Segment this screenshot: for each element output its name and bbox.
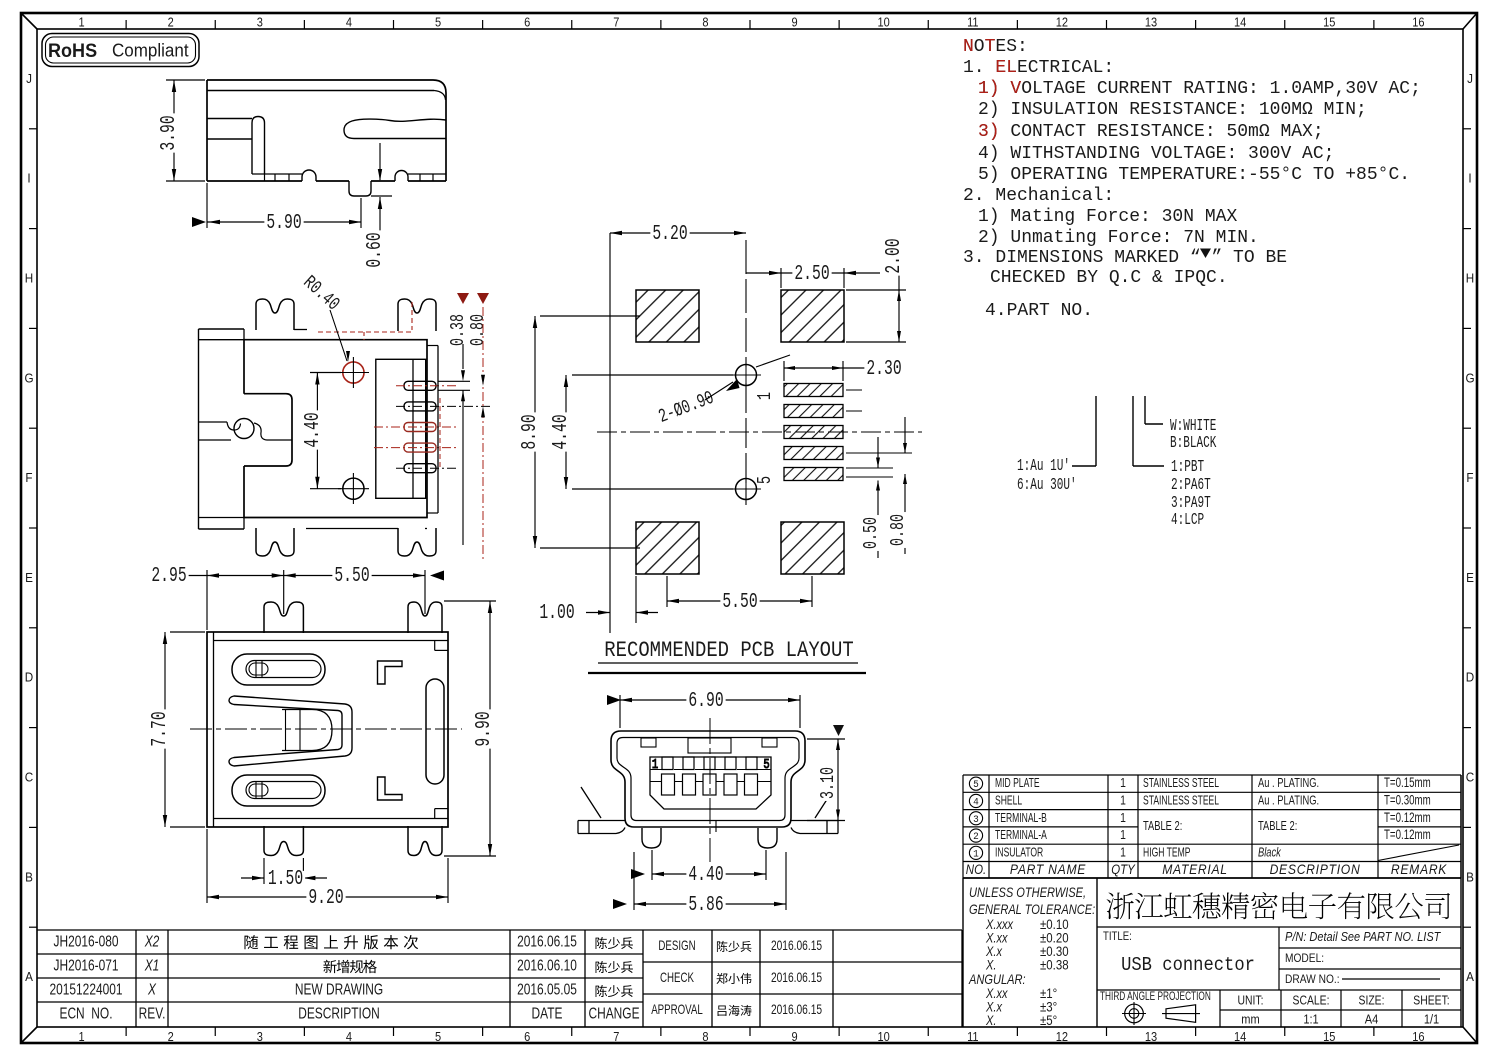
svg-text:2:PA6T: 2:PA6T: [1171, 476, 1211, 495]
top view holes: [338, 357, 369, 504]
svg-text:9: 9: [791, 15, 797, 30]
svg-text:E: E: [25, 570, 33, 585]
svg-text:QTY: QTY: [1111, 862, 1136, 877]
svg-text:2016.06.15: 2016.06.15: [517, 932, 577, 950]
svg-text:15: 15: [1323, 1029, 1336, 1044]
svg-text:9.90: 9.90: [473, 711, 496, 746]
svg-text:C: C: [1466, 770, 1475, 785]
svg-text:3: 3: [973, 813, 979, 825]
svg-text:I: I: [27, 171, 30, 186]
svg-text:1:1: 1:1: [1303, 1012, 1319, 1027]
svg-text:6:Au 30U': 6:Au 30U': [1017, 476, 1077, 495]
svg-text:T=0.12mm: T=0.12mm: [1384, 810, 1431, 825]
svg-text:1: 1: [754, 392, 776, 400]
svg-text:Black: Black: [1258, 846, 1282, 860]
svg-text:12: 12: [1056, 15, 1069, 30]
dimension 4.40 (pcb): [550, 375, 733, 489]
svg-text:APPROVAL: APPROVAL: [651, 1003, 703, 1018]
svg-text:1: 1: [78, 15, 84, 30]
svg-text:5: 5: [973, 779, 979, 791]
dimension 3.10: [807, 725, 845, 821]
svg-text:10: 10: [878, 15, 891, 30]
notes text block: [963, 37, 1421, 321]
svg-text:0.38: 0.38: [447, 314, 469, 346]
svg-text:THIRD ANGLE PROJECTION: THIRD ANGLE PROJECTION: [1100, 991, 1211, 1004]
svg-text:0.80: 0.80: [467, 314, 489, 346]
svg-text:2016.05.05: 2016.05.05: [517, 980, 577, 998]
connector centerline: [709, 718, 711, 862]
svg-text:mm: mm: [1241, 1012, 1259, 1027]
front view inner springs: [229, 654, 444, 806]
svg-text:JH2016-080: JH2016-080: [53, 932, 118, 950]
svg-text:D: D: [25, 670, 34, 685]
dimension 5.20: [610, 223, 746, 246]
svg-text:9: 9: [791, 1029, 797, 1044]
dimension 2.95: [149, 565, 425, 630]
front view outline: [207, 632, 448, 827]
dimension 5.86: [613, 852, 786, 917]
svg-text:ECN NO.: ECN NO.: [59, 1004, 112, 1022]
dimension 2.00: [846, 236, 906, 342]
svg-text:H: H: [25, 271, 33, 286]
svg-text:5.50: 5.50: [722, 591, 757, 614]
BOM parts table: [963, 775, 1461, 878]
title texts: [1100, 930, 1441, 1003]
svg-text:2. Mechanical:: 2. Mechanical:: [963, 186, 1114, 206]
svg-text:DATE: DATE: [532, 1004, 563, 1022]
connector pins row1: [652, 757, 770, 773]
svg-text:NO.: NO.: [966, 862, 986, 877]
svg-text:MODEL:: MODEL:: [1285, 952, 1324, 965]
svg-text:UNLESS OTHERWISE,: UNLESS OTHERWISE,: [969, 885, 1086, 900]
svg-text:1: 1: [1120, 811, 1126, 825]
svg-text:ANGULAR:: ANGULAR:: [968, 972, 1025, 987]
dimension 6.90: [607, 690, 800, 728]
svg-text:4.40: 4.40: [302, 412, 325, 447]
svg-text:1) Mating Force: 30N MAX: 1) Mating Force: 30N MAX: [978, 207, 1237, 227]
leader R0.40: [299, 271, 350, 362]
svg-text:7: 7: [613, 15, 619, 30]
svg-text:Au . PLATING.: Au . PLATING.: [1258, 794, 1319, 808]
svg-text:X2: X2: [144, 932, 160, 950]
dimension 2.50: [746, 263, 880, 288]
svg-text:1. ELECTRICAL:: 1. ELECTRICAL:: [963, 58, 1114, 78]
svg-text:±0.38: ±0.38: [1040, 958, 1069, 973]
svg-text:0.80: 0.80: [887, 514, 909, 546]
svg-text:4:LCP: 4:LCP: [1171, 511, 1204, 530]
svg-text:8: 8: [702, 15, 708, 30]
svg-text:TERMINAL-B: TERMINAL-B: [995, 811, 1047, 825]
svg-text:D: D: [1466, 670, 1475, 685]
pcb layout reference lines: [597, 233, 922, 633]
dimension 5.90: [192, 183, 361, 235]
svg-text:6: 6: [524, 15, 530, 30]
svg-text:3): 3): [978, 122, 1000, 142]
svg-text:2.00: 2.00: [883, 238, 906, 273]
svg-text:J: J: [1467, 71, 1473, 86]
svg-text:5.86: 5.86: [688, 894, 723, 917]
svg-text:TERMINAL-A: TERMINAL-A: [995, 828, 1047, 842]
svg-text:16: 16: [1412, 15, 1425, 30]
svg-text:B: B: [1466, 870, 1474, 885]
svg-text:14: 14: [1234, 1029, 1247, 1044]
svg-text:7: 7: [613, 1029, 619, 1044]
svg-text:H: H: [1466, 271, 1474, 286]
svg-text:3: 3: [257, 1029, 263, 1044]
svg-text:6.90: 6.90: [688, 690, 723, 713]
svg-text:2: 2: [168, 15, 174, 30]
svg-text:JH2016-071: JH2016-071: [53, 956, 118, 974]
svg-text:4.40: 4.40: [688, 864, 723, 887]
svg-text:0.50: 0.50: [860, 517, 882, 549]
svg-text:4: 4: [346, 15, 352, 30]
svg-text:DESIGN: DESIGN: [658, 939, 695, 954]
pcb pads (hatched squares): [636, 290, 844, 574]
svg-text:0.60: 0.60: [364, 232, 387, 267]
svg-text:1: 1: [1120, 793, 1126, 807]
svg-text:X: X: [147, 980, 156, 998]
svg-text:5.20: 5.20: [652, 223, 687, 246]
svg-text:1:Au 1U': 1:Au 1U': [1017, 457, 1070, 476]
svg-text:PART NAME: PART NAME: [1010, 861, 1086, 877]
company name: [1107, 892, 1451, 919]
svg-text:1): 1): [978, 79, 1000, 99]
top view pins: [318, 302, 492, 513]
svg-text:UNIT:: UNIT:: [1238, 993, 1264, 1007]
svg-text:11: 11: [967, 1029, 979, 1044]
svg-text:2016.06.10: 2016.06.10: [517, 956, 577, 974]
svg-text:2) Unmating Force: 7N MIN.: 2) Unmating Force: 7N MIN.: [978, 228, 1259, 248]
svg-text:RECOMMENDED PCB LAYOUT: RECOMMENDED PCB LAYOUT: [604, 639, 853, 664]
dimension 0.50 (pcb): [860, 437, 882, 558]
svg-text:B: B: [25, 870, 33, 885]
svg-text:3) CONTACT RESISTANCE: 50mΩ MA: 3) CONTACT RESISTANCE: 50mΩ MAX;: [978, 122, 1324, 142]
svg-text:10: 10: [878, 1029, 891, 1044]
svg-text:13: 13: [1145, 15, 1158, 30]
svg-text:P/N: Detail See PART NO. LIST: P/N: Detail See PART NO. LIST: [1285, 930, 1441, 944]
svg-text:DRAW NO.:: DRAW NO.:: [1285, 973, 1340, 986]
svg-text:1: 1: [1120, 776, 1126, 790]
svg-text:A: A: [1466, 970, 1475, 985]
svg-text:SIZE:: SIZE:: [1359, 993, 1385, 1007]
svg-text:Compliant: Compliant: [112, 40, 189, 61]
dimension 0.80 (checked, red): [467, 293, 489, 560]
pcb holes 2-phi0.90: [731, 360, 761, 504]
svg-text:5: 5: [435, 1029, 441, 1044]
dimension 5.50 (pcb): [667, 576, 812, 614]
svg-text:14: 14: [1234, 15, 1247, 30]
svg-text:NEW DRAWING: NEW DRAWING: [295, 980, 383, 998]
title block grid: [1097, 775, 1461, 1027]
svg-text:4: 4: [346, 1029, 352, 1044]
dimension 1.50: [241, 858, 327, 891]
svg-text:HIGH TEMP: HIGH TEMP: [1143, 846, 1190, 860]
dimension 7.70: [149, 632, 205, 827]
svg-text:G: G: [1465, 371, 1474, 386]
svg-text:1) VOLTAGE CURRENT RATING: 1.0: 1) VOLTAGE CURRENT RATING: 1.0AMP,30V AC…: [978, 79, 1421, 99]
svg-text:7.70: 7.70: [149, 711, 172, 746]
svg-text:20151224001: 20151224001: [49, 980, 122, 998]
svg-text:15: 15: [1323, 15, 1336, 30]
svg-text:8: 8: [702, 1029, 708, 1044]
svg-text:CHANGE: CHANGE: [588, 1004, 639, 1022]
dimension 8.90: [519, 316, 640, 548]
dimension 4.40 (connector): [631, 850, 766, 887]
svg-text:2.95: 2.95: [151, 565, 186, 588]
third angle projection symbol: [1122, 1002, 1200, 1025]
connector pins row2: [662, 774, 758, 795]
svg-text:1:PBT: 1:PBT: [1171, 458, 1204, 477]
svg-text:CHECK: CHECK: [660, 971, 694, 986]
dimension 9.20: [207, 829, 448, 910]
svg-text:3. DIMENSIONS MARKED “ ” TO BE: 3. DIMENSIONS MARKED “ ” TO BE: [963, 248, 1287, 268]
svg-text:5.90: 5.90: [266, 212, 301, 235]
svg-text:1: 1: [652, 757, 658, 773]
svg-text:4: 4: [973, 796, 979, 808]
top view mounting tabs: [256, 299, 436, 556]
svg-text:1.00: 1.00: [539, 602, 574, 625]
svg-text:F: F: [25, 471, 33, 486]
svg-text:EL: EL: [995, 58, 1017, 78]
svg-text:N: N: [963, 37, 974, 57]
svg-text:B:BLACK: B:BLACK: [1170, 434, 1217, 453]
dimension 2.30: [784, 358, 904, 381]
RoHS Compliant logo: [42, 34, 199, 67]
svg-text:T=0.30mm: T=0.30mm: [1384, 793, 1431, 808]
dimension 3.90: [158, 80, 205, 181]
svg-text:REMARK: REMARK: [1391, 861, 1448, 877]
dimension 0.60: [364, 143, 392, 270]
svg-text:RoHS: RoHS: [48, 40, 97, 62]
svg-text:4.40: 4.40: [550, 414, 573, 449]
svg-text:TABLE 2:: TABLE 2:: [1258, 820, 1297, 834]
svg-text:TABLE 2:: TABLE 2:: [1143, 820, 1182, 834]
svg-text:CHECKED BY Q.C & IPQC.: CHECKED BY Q.C & IPQC.: [990, 268, 1228, 288]
dimension 0.38 (checked): [438, 293, 470, 545]
svg-text:1: 1: [1120, 828, 1126, 842]
svg-text:X1: X1: [144, 956, 159, 974]
svg-text:11: 11: [967, 15, 979, 30]
svg-text:J: J: [26, 71, 32, 86]
svg-text:1/1: 1/1: [1424, 1012, 1440, 1027]
svg-text:I: I: [1468, 171, 1471, 186]
connector front view (pcb side) outline: [611, 731, 805, 832]
leader 2-phi0.90: [655, 355, 790, 428]
svg-text:E: E: [1466, 570, 1474, 585]
svg-text:2016.06.15: 2016.06.15: [771, 937, 822, 953]
dimension 1.00: [537, 576, 658, 625]
svg-text:5.50: 5.50: [334, 565, 369, 588]
svg-text:T=0.15mm: T=0.15mm: [1384, 776, 1431, 791]
svg-text:USB connector: USB connector: [1121, 954, 1255, 976]
svg-text:V: V: [1010, 79, 1021, 99]
svg-text:TITLE:: TITLE:: [1103, 930, 1132, 943]
svg-text:SHEET:: SHEET:: [1413, 993, 1449, 1007]
svg-text:3.90: 3.90: [158, 115, 181, 150]
svg-text:T: T: [985, 37, 996, 57]
svg-text:T=0.12mm: T=0.12mm: [1384, 828, 1431, 843]
heading RECOMMENDED PCB LAYOUT: [588, 639, 866, 673]
approval table: [643, 930, 962, 1027]
svg-text:3.10: 3.10: [817, 767, 839, 799]
svg-text:INSULATOR: INSULATOR: [995, 846, 1043, 860]
dimension 5.50 (front): [284, 565, 444, 588]
svg-text:5) OPERATING TEMPERATURE:-55°C: 5) OPERATING TEMPERATURE:-55°C TO +85°C.: [978, 165, 1410, 185]
svg-text:DESCRIPTION: DESCRIPTION: [298, 1004, 380, 1022]
dimension 0.80 (pcb): [887, 417, 909, 554]
front view mounting tabs: [264, 602, 442, 856]
svg-text:MID PLATE: MID PLATE: [995, 777, 1040, 791]
front view centerline: [190, 728, 462, 730]
svg-text:8.90: 8.90: [519, 414, 542, 449]
top view outline: [199, 329, 428, 529]
svg-text:F: F: [1466, 471, 1474, 486]
svg-text:C: C: [25, 770, 34, 785]
svg-text:STAINLESS STEEL: STAINLESS STEEL: [1143, 794, 1219, 808]
svg-text:1: 1: [973, 848, 979, 860]
svg-text:1.50: 1.50: [268, 868, 303, 891]
svg-text:STAINLESS STEEL: STAINLESS STEEL: [1143, 777, 1219, 791]
svg-text:12: 12: [1056, 1029, 1069, 1044]
svg-text:X.: X.: [985, 1013, 996, 1028]
svg-text:MATERIAL: MATERIAL: [1162, 861, 1228, 877]
svg-text:X.: X.: [985, 957, 996, 972]
svg-text:A: A: [25, 970, 34, 985]
connector flanges and legs: [578, 787, 838, 848]
svg-text:2: 2: [973, 831, 979, 843]
svg-text:DESCRIPTION: DESCRIPTION: [1270, 861, 1361, 877]
svg-text:SCALE:: SCALE:: [1293, 993, 1330, 1007]
svg-text:SHELL: SHELL: [995, 794, 1022, 808]
pcb signal pads: [754, 384, 912, 485]
svg-text:6: 6: [524, 1029, 530, 1044]
svg-text:2.30: 2.30: [866, 358, 901, 381]
svg-text:4.PART NO.: 4.PART NO.: [985, 301, 1093, 321]
svg-text:5: 5: [754, 476, 776, 484]
revision table: [37, 930, 643, 1027]
dimension 9.90: [444, 601, 496, 856]
svg-text:2016.06.15: 2016.06.15: [771, 1001, 822, 1017]
svg-text:REV.: REV.: [139, 1004, 166, 1022]
part number legend tree: [1017, 396, 1217, 530]
svg-text:±5°: ±5°: [1040, 1013, 1057, 1028]
svg-text:16: 16: [1412, 1029, 1425, 1044]
svg-text:A4: A4: [1365, 1012, 1379, 1027]
svg-text:2: 2: [168, 1029, 174, 1044]
svg-text:5: 5: [763, 757, 769, 773]
svg-text:4) WITHSTANDING VOLTAGE: 300V: 4) WITHSTANDING VOLTAGE: 300V AC;: [978, 144, 1334, 164]
svg-text:2) INSULATION RESISTANCE: 100M: 2) INSULATION RESISTANCE: 100MΩ MIN;: [978, 100, 1367, 120]
svg-text:2016.06.15: 2016.06.15: [771, 969, 822, 985]
tolerance box: [963, 878, 1461, 1028]
svg-text:GENERAL TOLERANCE:: GENERAL TOLERANCE:: [969, 902, 1095, 917]
unit scale size sheet: [1238, 993, 1450, 1026]
svg-text:1: 1: [78, 1029, 84, 1044]
svg-text:13: 13: [1145, 1029, 1158, 1044]
side view outline: [207, 80, 446, 196]
svg-text:2.50: 2.50: [794, 263, 829, 286]
svg-text:Au . PLATING.: Au . PLATING.: [1258, 777, 1319, 791]
svg-text:5: 5: [435, 15, 441, 30]
dimension 4.40 (top view): [302, 373, 341, 489]
svg-text:9.20: 9.20: [308, 887, 343, 910]
svg-text:1: 1: [1120, 845, 1126, 859]
svg-text:G: G: [24, 371, 33, 386]
svg-text:3: 3: [257, 15, 263, 30]
